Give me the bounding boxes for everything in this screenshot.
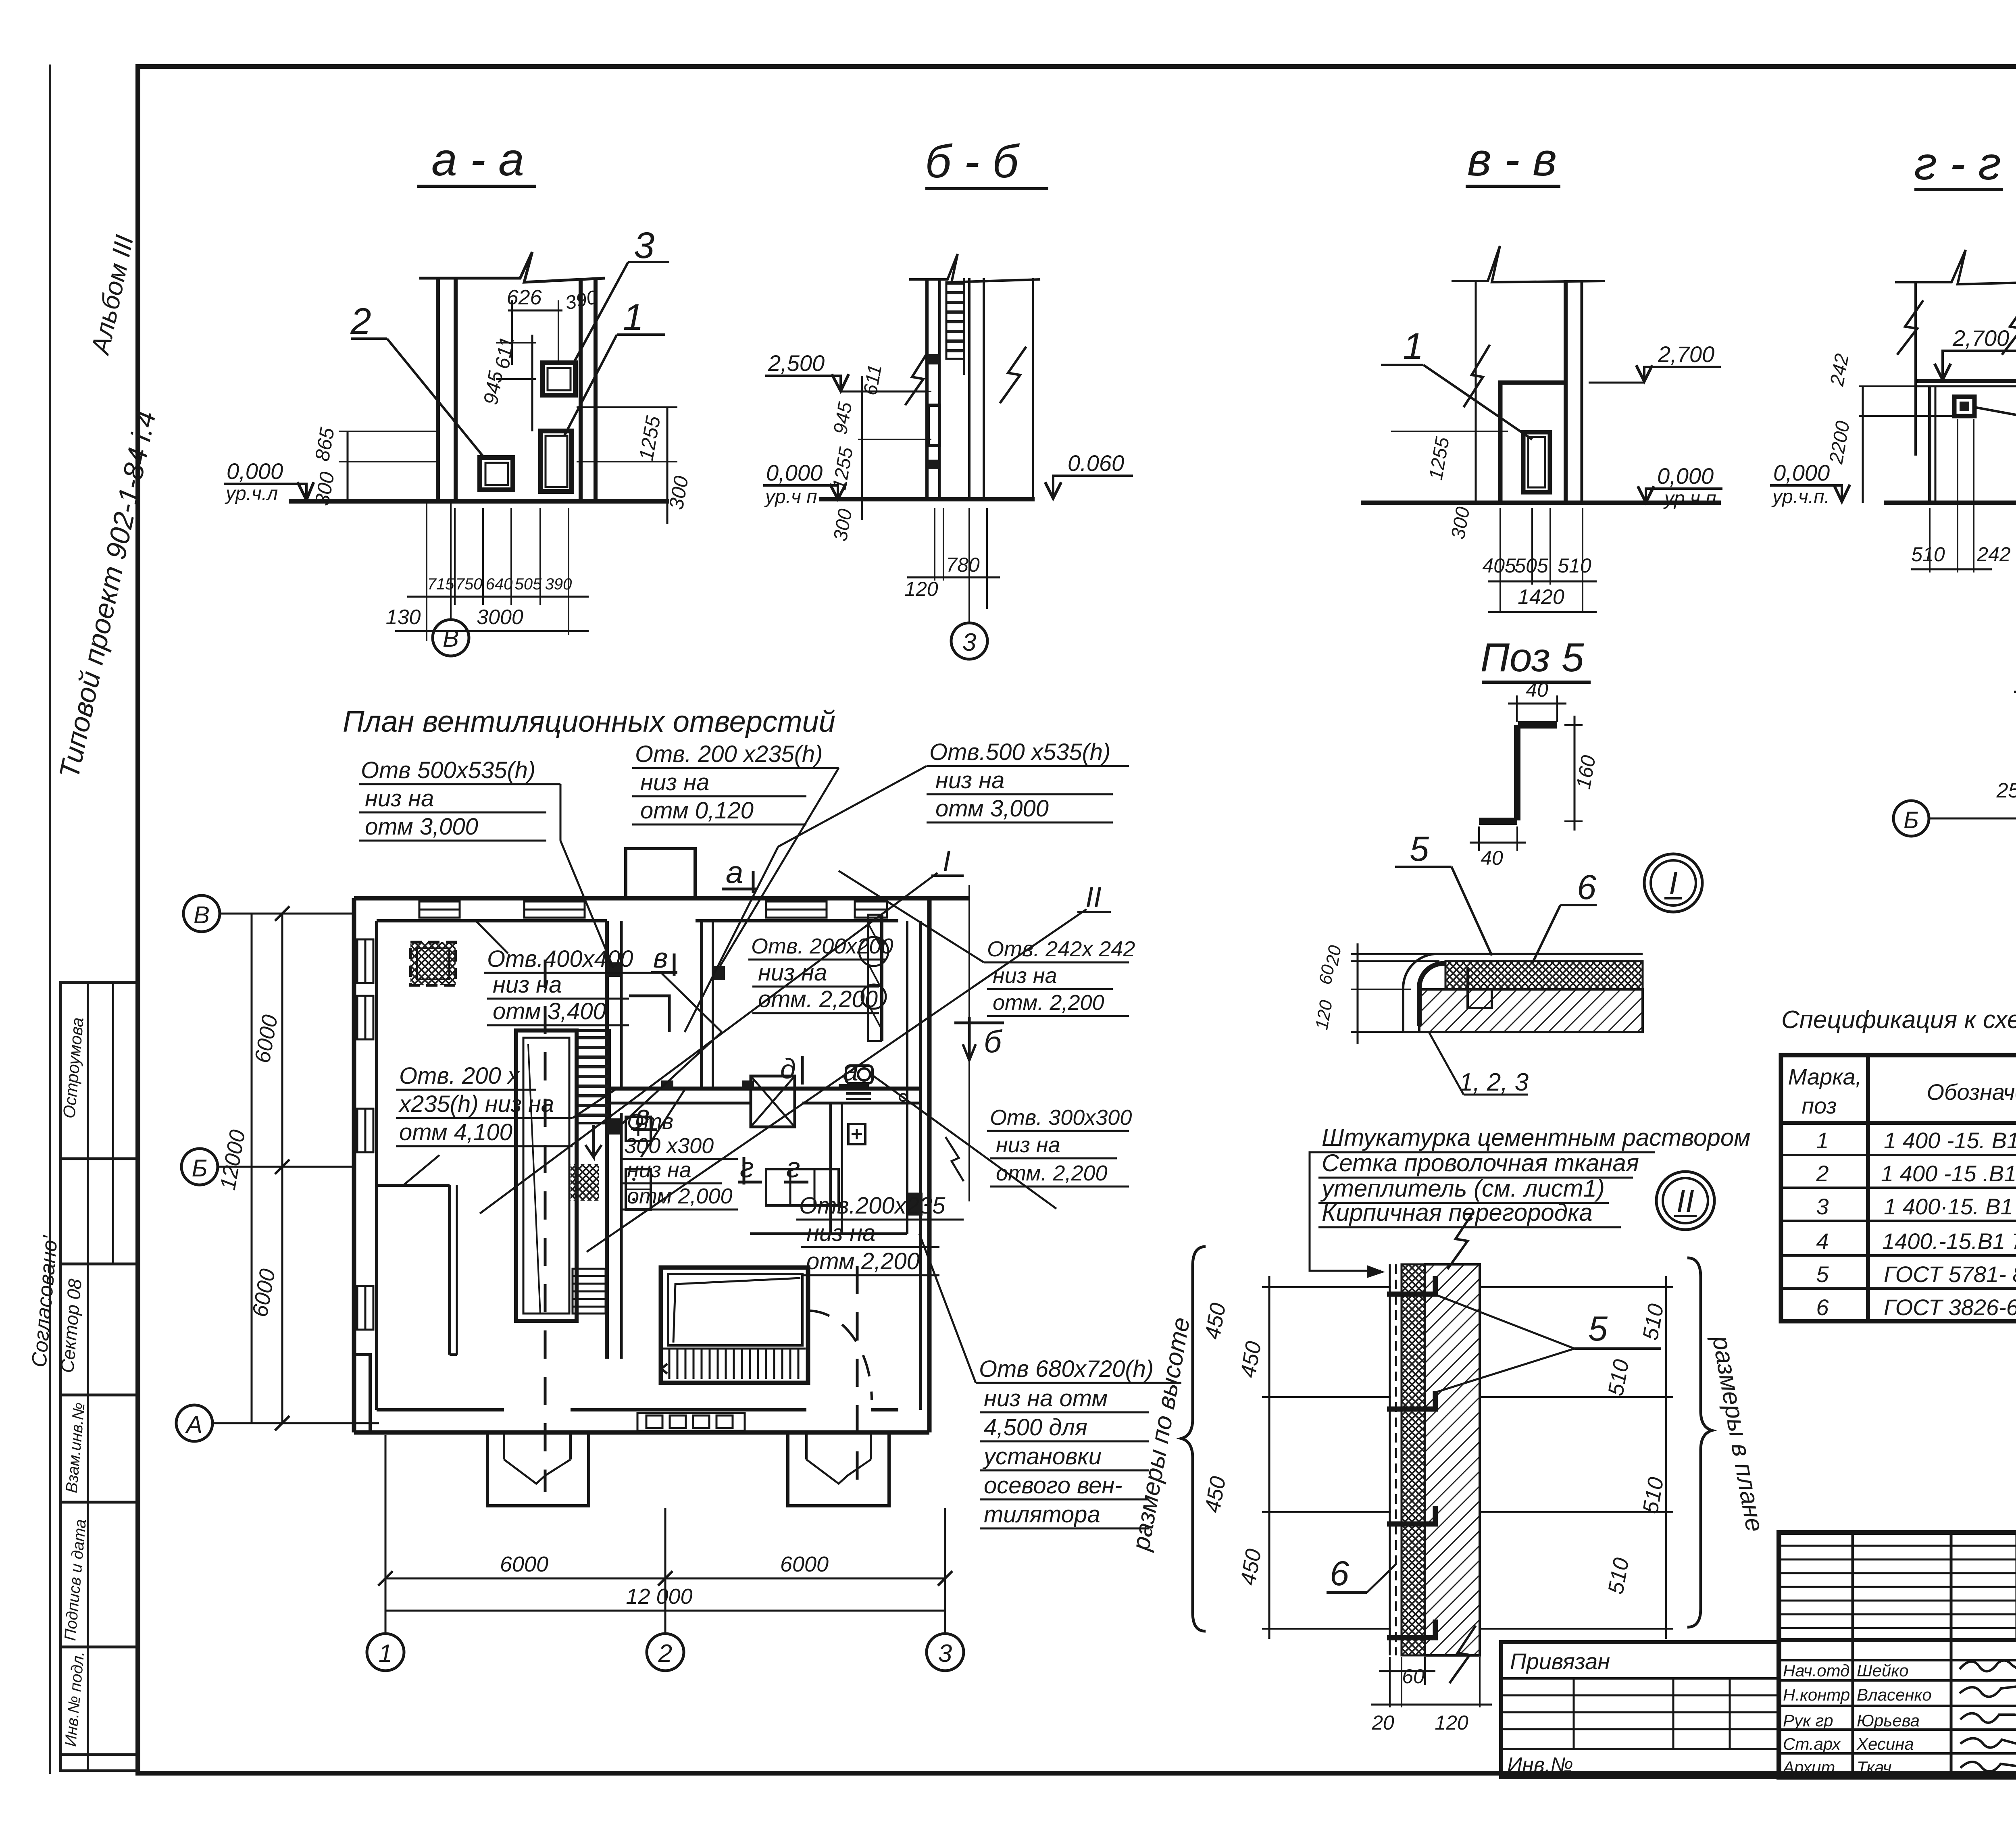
svg-text:г: г [740, 1152, 754, 1183]
bottom dims g-g [1929, 508, 1931, 572]
label otv 680x720 [919, 1234, 1181, 1528]
svg-text:А: А [185, 1411, 202, 1438]
svg-text:В: В [194, 901, 210, 928]
svg-text:505: 505 [515, 575, 542, 593]
svg-text:отм 3,400: отм 3,400 [493, 998, 606, 1024]
axis B vent [1893, 801, 1929, 836]
svg-text:1 400 -15 .В1. 720 -18: 1 400 -15 .В1. 720 -18 [1881, 1161, 2016, 1186]
svg-text:ур.ч.п: ур.ч.п [1663, 488, 1716, 509]
section v-v [1361, 134, 1722, 613]
svg-text:Отв 680х720(h): Отв 680х720(h) [979, 1356, 1154, 1382]
leader 2 [351, 337, 387, 340]
svg-text:60: 60 [1402, 1665, 1425, 1688]
top line g-g with break [1895, 250, 2016, 284]
z profile [1518, 721, 1557, 729]
leader 5 detail II [1574, 1347, 1661, 1350]
right dim line b-b [1032, 278, 1034, 499]
svg-text:Привязан: Привязан [1510, 1649, 1610, 1674]
label otv 200x200 [748, 934, 893, 1013]
leader 1 v-v [1381, 364, 1423, 366]
inner wall g-g [1928, 386, 1931, 503]
insulation band crosshatch [1445, 961, 1643, 989]
floor line b-b [819, 497, 1035, 502]
svg-text:Б: Б [1904, 807, 1919, 833]
label otv 300x300 right [873, 1076, 1132, 1209]
svg-text:120: 120 [1435, 1711, 1468, 1734]
label otv 500x535 mid [685, 739, 1129, 1032]
left dim chain 12000 [251, 914, 253, 1423]
svg-text:Рук гр: Рук гр [1783, 1711, 1833, 1730]
svg-text:Спецификация к схеме распол: Спецификация к схеме расположения заклад… [1781, 1006, 2016, 1034]
svg-text:Нач.отд: Нач.отд [1783, 1661, 1849, 1680]
embedded plates on wall b-b [927, 354, 939, 364]
svg-text:120: 120 [904, 578, 938, 600]
small grid left [1779, 1546, 2016, 1628]
right curly bracket [1687, 1258, 1712, 1627]
long leader II [587, 909, 1087, 1252]
dim 40 bottom [1478, 826, 1480, 851]
opening 1 rect [541, 431, 572, 491]
plan axes bottom [367, 1435, 964, 1671]
porch 1 [487, 1432, 589, 1506]
toilet fixture [846, 1066, 873, 1083]
leader 4 g-g [1974, 407, 2016, 428]
svg-text:0,000: 0,000 [227, 458, 283, 484]
material callout text block [1310, 1124, 1750, 1278]
top line v-v with break [1452, 246, 1605, 282]
leader 1 [564, 335, 617, 435]
svg-text:г: г [786, 1152, 800, 1183]
svg-text:390: 390 [545, 575, 572, 593]
dim horizontals [1262, 1287, 1673, 1629]
hall fixtures left [626, 1117, 651, 1141]
svg-text:6: 6 [1330, 1554, 1349, 1593]
leader 5 detail I [1395, 866, 1452, 868]
anchor z in wall [1468, 968, 1492, 1008]
outer wall right [927, 898, 932, 1432]
svg-text:510: 510 [1558, 554, 1591, 577]
svg-text:0,000: 0,000 [1773, 460, 1830, 485]
chimney protrusion top [626, 849, 695, 898]
svg-text:5: 5 [1588, 1309, 1608, 1348]
break mark left b-b [905, 353, 927, 405]
axis circle 3 [927, 1634, 964, 1671]
svg-text:а: а [726, 854, 743, 890]
floor line a-a [289, 499, 669, 504]
opening 2 square [480, 458, 513, 490]
floor line g-g [1884, 501, 2016, 505]
svg-text:6: 6 [1816, 1295, 1829, 1320]
svg-text:Инв.№: Инв.№ [1507, 1753, 1573, 1777]
svg-text:низ на: низ на [365, 785, 434, 812]
svg-text:Н.контр: Н.контр [1783, 1685, 1850, 1704]
svg-text:Отв.500 х535(h): Отв.500 х535(h) [929, 739, 1110, 765]
small partition top [629, 996, 669, 1032]
svg-text:Отв.200х235: Отв.200х235 [799, 1193, 946, 1219]
svg-text:6000: 6000 [500, 1552, 548, 1576]
svg-text:40: 40 [1481, 847, 1503, 869]
svg-text:0,000: 0,000 [1657, 463, 1714, 489]
dim line 12000 [385, 1610, 945, 1612]
signatures [1960, 1661, 2016, 1772]
crosshatch square top-left (otv 400x400) [410, 942, 456, 985]
floor plan [354, 845, 1111, 1506]
label otv 200x235 left mid [396, 1063, 617, 1146]
svg-text:ур.ч.л: ур.ч.л [225, 483, 278, 504]
specification table [1781, 1055, 2016, 1322]
svg-text:г - г: г - г [1914, 138, 2001, 189]
break mark right b-b [1000, 347, 1026, 403]
svg-text:осевого вен-: осевого вен- [984, 1472, 1123, 1499]
svg-text:6: 6 [1577, 868, 1596, 907]
svg-text:отм 3,000: отм 3,000 [365, 814, 478, 840]
svg-text:3: 3 [962, 629, 976, 656]
svg-text:Ткач: Ткач [1857, 1758, 1891, 1777]
svg-text:установки: установки [982, 1443, 1102, 1470]
interior wall vertical top rooms [700, 921, 703, 1089]
svg-text:1: 1 [1816, 1128, 1829, 1153]
svg-text:0.060: 0.060 [1068, 450, 1124, 476]
brick band [1419, 989, 1643, 1032]
svg-text:2: 2 [350, 301, 371, 342]
svg-text:низ на: низ на [935, 767, 1004, 793]
axis A circle [176, 1405, 212, 1441]
z anchors in wall [1387, 1276, 1435, 1638]
svg-text:510: 510 [1911, 543, 1945, 566]
dim 626 top [508, 310, 562, 312]
axis circle V [433, 620, 469, 656]
svg-text:ІІ: ІІ [1677, 1183, 1694, 1219]
svg-text:Отв.400х400: Отв.400х400 [487, 946, 633, 972]
svg-text:в - в: в - в [1467, 134, 1557, 185]
bottom wall vent strip [637, 1413, 745, 1431]
svg-text:низ на: низ на [806, 1220, 875, 1246]
svg-text:505: 505 [1514, 554, 1548, 577]
svg-text:отм. 2,200: отм. 2,200 [993, 991, 1104, 1015]
section g-g [1770, 138, 2016, 572]
svg-text:2,500: 2,500 [768, 350, 825, 376]
outer wall top [354, 896, 969, 901]
axis circle 2 [647, 1634, 684, 1671]
equipment unit [661, 1268, 808, 1383]
ceiling g-g [1917, 379, 2016, 383]
svg-text:отм. 2,200: отм. 2,200 [996, 1161, 1108, 1185]
svg-text:а: а [843, 1055, 858, 1087]
svg-text:20: 20 [1322, 944, 1345, 967]
svg-text:низ на: низ на [996, 1133, 1060, 1157]
left dims v-v [1391, 431, 1508, 432]
sink fixture [848, 1124, 865, 1144]
grille strip b-b [946, 282, 964, 359]
svg-text:Отв. 200х200: Отв. 200х200 [751, 934, 893, 958]
svg-text:низ на: низ на [493, 972, 562, 998]
label otv 200x235 bottom [796, 1193, 964, 1275]
svg-text:б: б [984, 1024, 1003, 1059]
svg-text:626: 626 [507, 286, 542, 309]
top wall windows [419, 901, 887, 918]
svg-text:Юрьева: Юрьева [1857, 1711, 1920, 1730]
svg-text:низ на: низ на [758, 960, 827, 986]
wall a-a right [579, 278, 583, 501]
left dim line v-v with break [1475, 281, 1477, 503]
interior wall left room [448, 1185, 451, 1355]
cut mark b bottom dashed axis [968, 885, 970, 1201]
svg-text:І: І [1669, 865, 1678, 901]
interior wall vertical center [605, 921, 609, 1359]
main horizontal [1779, 1638, 2016, 1642]
personnel names [1782, 1661, 1932, 1777]
svg-text:утеплитель (см. лист1): утеплитель (см. лист1) [1320, 1175, 1605, 1202]
dashed centerline channel [544, 960, 547, 1492]
svg-text:Хесина: Хесина [1856, 1734, 1914, 1753]
brick hatch [1425, 1264, 1480, 1655]
break marks g-g [1897, 300, 1923, 355]
privyazan table [1501, 1642, 1779, 1777]
svg-text:Отв. 300х300: Отв. 300х300 [990, 1105, 1132, 1130]
svg-text:1: 1 [623, 297, 644, 338]
left wall g-g [1914, 282, 1917, 456]
svg-text:В: В [443, 625, 459, 652]
svg-text:242: 242 [1976, 543, 2011, 566]
svg-text:405: 405 [1482, 554, 1516, 577]
svg-text:в: в [653, 942, 668, 974]
svg-text:Ст.арх: Ст.арх [1783, 1734, 1841, 1753]
porch 2 [788, 1432, 889, 1506]
outer wall bottom [354, 1430, 929, 1435]
svg-text:отм. 2,200: отм. 2,200 [758, 986, 878, 1012]
axis B circle [181, 1149, 218, 1185]
svg-text:низ на: низ на [640, 769, 709, 795]
svg-text:3: 3 [1816, 1194, 1829, 1219]
svg-text:640: 640 [486, 575, 513, 593]
svg-text:4,500 для: 4,500 для [984, 1414, 1087, 1441]
plaster thin layer [1389, 1264, 1391, 1655]
svg-text:5: 5 [1410, 830, 1429, 868]
crosshatch blob mid [571, 1164, 599, 1201]
top exterior line [2014, 691, 2016, 693]
svg-text:130: 130 [386, 606, 421, 629]
svg-text:Обозначение: Обозначение [1926, 1079, 2016, 1105]
outer trim line left [49, 65, 51, 1774]
svg-text:715: 715 [427, 575, 454, 593]
svg-text:3: 3 [938, 1640, 952, 1667]
svg-text:2,700: 2,700 [1952, 325, 2009, 351]
svg-text:низ на: низ на [627, 1158, 691, 1182]
svg-text:Б: Б [192, 1155, 207, 1182]
door swing left room [403, 1155, 439, 1185]
svg-text:0,000: 0,000 [766, 460, 823, 485]
svg-text:2: 2 [658, 1640, 672, 1667]
section b-b [763, 136, 1133, 659]
svg-text:Отв: Отв [627, 1110, 673, 1134]
wall b-b left pair [925, 278, 929, 499]
svg-text:Отв. 200 х235(h): Отв. 200 х235(h) [635, 741, 823, 767]
axis circle 1 [367, 1634, 404, 1671]
svg-text:5: 5 [1816, 1262, 1829, 1287]
detail II mark [1656, 1172, 1714, 1230]
personnel rows [1779, 1660, 2016, 1753]
plan axes left [176, 895, 379, 1441]
axis V circle [183, 895, 220, 932]
dims detail I left [1351, 953, 1439, 955]
svg-text:1400.-15.В1 710-06: 1400.-15.В1 710-06 [1882, 1228, 2016, 1254]
svg-text:750: 750 [456, 575, 483, 593]
dashed line right [856, 1266, 859, 1492]
svg-text:Отв. 242х 242: Отв. 242х 242 [987, 937, 1135, 961]
interior wall horizontal mid [607, 1087, 921, 1091]
vent chamber plan [1893, 657, 2016, 992]
title block [1779, 1532, 2016, 1777]
svg-text:2: 2 [1816, 1161, 1829, 1186]
door arc bottom right [808, 1311, 872, 1400]
left curly bracket [1181, 1247, 1206, 1631]
svg-text:отм 3,000: отм 3,000 [935, 795, 1049, 822]
svg-text:Архит: Архит [1782, 1758, 1835, 1777]
section a-a [224, 134, 693, 656]
svg-text:ГОСТ 3826-66**: ГОСТ 3826-66** [1884, 1295, 2016, 1320]
label otv 200x235 top [632, 741, 839, 966]
axis circle 3 b-b [968, 508, 970, 623]
top line b-b with break [909, 254, 1040, 282]
svg-text:1 400 -15. В1 720 -12: 1 400 -15. В1 720 -12 [1884, 1128, 2016, 1153]
svg-text:отм 2,200: отм 2,200 [806, 1248, 920, 1274]
svg-text:б - б: б - б [925, 136, 1020, 187]
svg-text:1: 1 [379, 1640, 392, 1667]
svg-text:12 000: 12 000 [626, 1584, 692, 1609]
outer wall left [352, 898, 356, 1432]
svg-text:Сетка проволочная тканая: Сетка проволочная тканая [1322, 1149, 1639, 1176]
detail I mark [1644, 854, 1702, 912]
ceiling line a-a with break [419, 252, 605, 282]
bottom dims b-b [934, 508, 935, 581]
svg-text:низ на: низ на [993, 964, 1057, 988]
svg-text:40: 40 [1526, 679, 1548, 701]
svg-text:ур.ч п: ур.ч п [764, 486, 817, 508]
svg-text:Отв 500х535(h): Отв 500х535(h) [361, 757, 535, 783]
svg-text:1, 2, 3: 1, 2, 3 [1459, 1068, 1529, 1096]
label otv 242x242 right [839, 871, 1135, 1016]
leader 3 [573, 262, 628, 365]
hatched niche right wall top [868, 915, 881, 1041]
bottom dims v-v [1500, 508, 1501, 613]
svg-text:д: д [780, 1053, 796, 1085]
svg-text:Кирпичная перегородка: Кирпичная перегородка [1322, 1199, 1593, 1226]
svg-text:3000: 3000 [477, 606, 523, 629]
left wall windows [357, 939, 373, 1330]
label otv 300x300 center [622, 1089, 738, 1209]
dim 40 top [1516, 695, 1518, 722]
svg-text:20: 20 [1371, 1711, 1394, 1734]
bottom dims detail II [1390, 1657, 1480, 1707]
opening 1 v-v [1523, 432, 1550, 492]
svg-text:2,700: 2,700 [1658, 341, 1714, 367]
speckle band plaster [1445, 960, 1643, 962]
svg-text:Отв. 200 х: Отв. 200 х [399, 1063, 520, 1089]
svg-text:780: 780 [946, 554, 980, 576]
svg-text:60: 60 [1315, 963, 1338, 986]
black opening 4 [1954, 397, 1974, 416]
dim 160 right [1564, 724, 1583, 726]
dim 1255 300 right [666, 407, 669, 524]
callout pointer [1310, 1152, 1381, 1271]
channel long rect [516, 1030, 577, 1321]
left dim chain 6000+6000 [281, 914, 283, 1423]
svg-text:отм 2,000: отм 2,000 [627, 1184, 733, 1208]
svg-text:поз: поз [1801, 1093, 1837, 1118]
svg-text:6000: 6000 [780, 1552, 829, 1576]
wall a-a left [436, 278, 440, 499]
plan annotations [359, 739, 1181, 1528]
detail I drawing: rounded wall top [1312, 830, 1643, 1096]
svg-text:ІІ: ІІ [1085, 881, 1102, 914]
top bottom breaks [1447, 1212, 1474, 1269]
insulation crosshatch [1402, 1264, 1425, 1655]
svg-text:тилятора: тилятора [984, 1501, 1100, 1528]
svg-text:Власенко: Власенко [1857, 1685, 1932, 1704]
svg-text:4: 4 [1816, 1228, 1829, 1254]
svg-text:300 х300: 300 х300 [624, 1134, 714, 1158]
svg-text:1420: 1420 [1518, 585, 1564, 609]
detail pos 5 [1470, 635, 1600, 869]
left dims g-g [1862, 386, 1864, 503]
left stamp column [60, 983, 138, 1771]
dim 611 945 vertical [531, 335, 533, 431]
svg-text:Поз 5: Поз 5 [1481, 635, 1584, 680]
svg-text:1 400·15. В1 720: 1 400·15. В1 720 [1884, 1194, 2016, 1219]
svg-text:1: 1 [1403, 326, 1423, 367]
svg-text:ГОСТ 5781- 82: ГОСТ 5781- 82 [1884, 1262, 2016, 1287]
stair rungs strip [577, 1030, 610, 1123]
table header texts [1788, 1064, 2016, 1118]
svg-text:Шейко: Шейко [1857, 1661, 1909, 1680]
vertical dim chain b-b [861, 376, 863, 520]
label otv 400x400 [484, 946, 722, 1125]
wall b-b mid/right [968, 278, 971, 499]
small stair mid-left [573, 1269, 606, 1314]
table rows [1816, 1122, 2016, 1322]
svg-text:отм 4,100: отм 4,100 [399, 1119, 512, 1145]
vent shaft room with X [751, 1076, 795, 1127]
svg-text:низ на отм: низ на отм [984, 1385, 1108, 1411]
long leader I [480, 873, 937, 1214]
svg-text:3: 3 [634, 225, 654, 266]
black opening squares [607, 962, 620, 977]
svg-text:отм 0,120: отм 0,120 [640, 797, 754, 824]
floor line v-v [1361, 501, 1721, 505]
dim line 6000 6000 [385, 1578, 945, 1580]
svg-text:ур.ч.п.: ур.ч.п. [1771, 486, 1830, 508]
svg-text:а - а: а - а [431, 134, 524, 185]
wall v-v niche [1500, 383, 1566, 503]
svg-text:План вентиляционных отверст: План вентиляционных отверстий [343, 705, 835, 738]
svg-text:Штукатурка цементным раствором: Штукатурка цементным раствором [1322, 1124, 1750, 1151]
opening 3 square [542, 363, 575, 395]
door swings top left room [476, 921, 508, 953]
leader 6 detail I [1560, 904, 1597, 906]
bottom dim chain a-a [426, 501, 427, 641]
wall section detail II [1127, 1212, 1769, 1734]
bottom-left corner step [354, 1355, 370, 1432]
svg-text:І: І [943, 845, 951, 877]
WC partitions right middle [829, 1103, 832, 1234]
shower boxes [766, 1169, 839, 1205]
svg-text:Марка,: Марка, [1788, 1064, 1862, 1089]
svg-text:250: 250 [1996, 779, 2016, 802]
dim 865 300 left [347, 431, 349, 501]
label otv 500x535 left [359, 757, 613, 968]
leader 6 detail II [1327, 1591, 1367, 1594]
svg-text:х235(h) низ на: х235(h) низ на [398, 1091, 554, 1117]
